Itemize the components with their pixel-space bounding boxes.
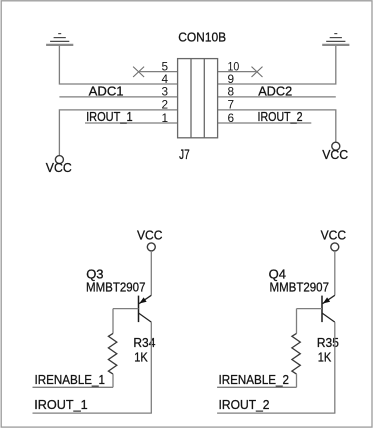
svg-text:CON10B: CON10B [178, 29, 226, 44]
wire R35 bottom lead [296, 374, 298, 387]
power VCC symbol left top [46, 156, 72, 175]
node IROUT_2 wire top [218, 122, 312, 124]
wire R35 top lead [296, 309, 298, 334]
ground GND left [46, 34, 73, 45]
wire from right ground to pin 9 [218, 46, 336, 84]
svg-text:VCC: VCC [321, 227, 347, 242]
resistor R34 reference label [133, 335, 155, 350]
svg-text:R34: R34 [133, 335, 155, 350]
node IROUT_1 wire top [85, 122, 178, 124]
svg-text:IROUT_1: IROUT_1 [86, 109, 133, 124]
svg-text:IROUT_2: IROUT_2 [258, 109, 303, 124]
svg-text:IROUT_2: IROUT_2 [219, 397, 270, 412]
svg-text:7: 7 [228, 98, 235, 112]
resistor R35 value label 1K [318, 350, 332, 365]
power VCC symbol Q3 [137, 227, 163, 251]
pin number 3 [161, 85, 168, 99]
svg-text:1K: 1K [134, 350, 148, 365]
pin number 4 [161, 72, 168, 86]
svg-text:MMBT2907: MMBT2907 [270, 280, 330, 295]
svg-text:4: 4 [161, 72, 168, 86]
net label IRENABLE_1 [35, 372, 106, 387]
wire R34 bottom lead [112, 374, 114, 387]
svg-text:ADC2: ADC2 [258, 83, 292, 98]
wire VCC to Q3 emitter [150, 251, 152, 295]
svg-text:IRENABLE_2: IRENABLE_2 [219, 372, 290, 387]
pin number 2 [161, 98, 168, 112]
net label IRENABLE_2 [219, 372, 290, 387]
resistor R34 [108, 333, 116, 374]
net label ADC1 [89, 83, 124, 98]
wire VCC to Q4 emitter [334, 251, 336, 295]
svg-text:8: 8 [228, 85, 235, 99]
wire Q3 collector down [150, 322, 152, 413]
svg-text:1K: 1K [318, 350, 332, 365]
svg-text:R35: R35 [317, 335, 339, 350]
net label ADC2 [258, 83, 292, 98]
svg-text:VCC: VCC [46, 160, 72, 175]
connector J7 body [178, 59, 218, 138]
transistor Q4 value label MMBT2907 [270, 280, 330, 295]
transistor Q4 reference label [269, 267, 286, 282]
svg-text:J7: J7 [179, 147, 190, 162]
transistor Q3 reference label [86, 267, 103, 282]
power VCC symbol Q4 [321, 227, 347, 251]
svg-text:6: 6 [228, 111, 235, 125]
net label IROUT_1 top [86, 109, 133, 124]
power VCC symbol right top [322, 142, 348, 162]
svg-text:IROUT_1: IROUT_1 [34, 397, 87, 412]
node IROUT_2 wire bottom [217, 412, 335, 414]
resistor R34 value label 1K [134, 350, 148, 365]
pin number 7 [228, 98, 235, 112]
pin number 1 [161, 111, 168, 125]
wire pin 10 stub [218, 71, 257, 73]
pin number 10 [228, 59, 240, 73]
pin number 8 [228, 85, 235, 99]
svg-text:IRENABLE_1: IRENABLE_1 [35, 372, 106, 387]
node ADC1 wire [59, 96, 177, 98]
wire Q3 base [113, 308, 139, 310]
svg-text:1: 1 [161, 111, 168, 125]
svg-text:MMBT2907: MMBT2907 [86, 280, 146, 295]
net label IROUT_1 bottom [34, 397, 87, 412]
net label IROUT_2 top [258, 109, 303, 124]
net label IROUT_2 bottom [219, 397, 270, 412]
connector value label CON10B [178, 29, 226, 44]
no-connect X on pin 10 [252, 67, 263, 77]
connector reference label J7 [179, 147, 190, 162]
svg-text:VCC: VCC [322, 147, 348, 162]
wire R34 top lead [112, 309, 114, 334]
wire pin 2 to VCC [59, 110, 177, 156]
pin number 5 [161, 59, 168, 73]
resistor R35 [292, 333, 300, 374]
wire Q4 base [297, 308, 323, 310]
svg-text:VCC: VCC [137, 227, 163, 242]
node IRENABLE_1 wire [33, 386, 114, 388]
pin number 9 [228, 72, 235, 86]
node IROUT_1 wire bottom [33, 412, 152, 414]
svg-text:2: 2 [161, 98, 168, 112]
no-connect X on pin 5 [133, 67, 144, 77]
wire pin 5 stub [139, 71, 178, 73]
transistor Q3 value label MMBT2907 [86, 280, 146, 295]
wire Q4 collector down [334, 322, 336, 413]
svg-text:9: 9 [228, 72, 235, 86]
node ADC2 wire [218, 96, 336, 98]
ground GND right [322, 34, 349, 45]
wire pin 7 to VCC [218, 110, 336, 142]
svg-text:3: 3 [161, 85, 168, 99]
pin number 6 [228, 111, 235, 125]
svg-text:ADC1: ADC1 [89, 83, 124, 98]
wire from left ground to pin 4 [59, 46, 177, 84]
node IRENABLE_2 wire [217, 386, 296, 388]
resistor R35 reference label [317, 335, 339, 350]
transistor Q4 (PNP) [322, 295, 335, 322]
transistor Q3 (PNP) [139, 295, 152, 322]
